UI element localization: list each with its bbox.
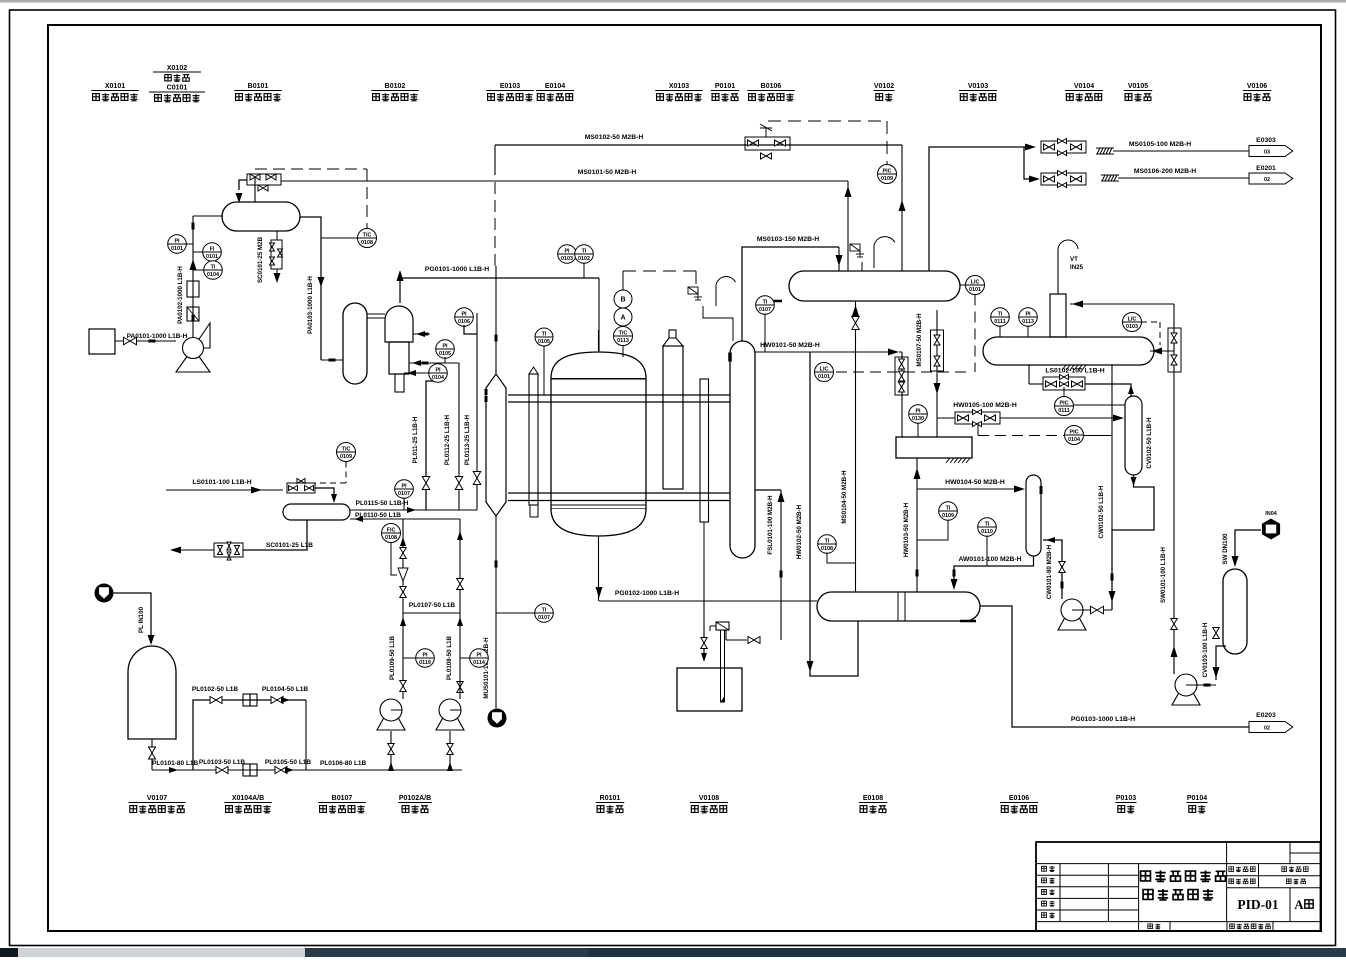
blower C0101 [193, 323, 210, 348]
instrument TI0105 [535, 328, 553, 346]
svg-text:TI: TI [542, 332, 547, 338]
svg-text:PI: PI [461, 312, 467, 318]
pipe CW0101 pump to E0106 [1043, 540, 1062, 599]
svg-text:V0103: V0103 [968, 83, 988, 90]
pipe branch to E0201 line [1024, 147, 1033, 179]
instrument TI0110 [978, 518, 997, 537]
svg-text:PA0102-1000 L1B-H: PA0102-1000 L1B-H [177, 266, 184, 324]
instrument stem TIC0108 to pipe [321, 237, 357, 239]
svg-text:P0103: P0103 [1116, 795, 1136, 802]
pipe P0104 discharge [1197, 684, 1216, 686]
svg-text:TIC: TIC [619, 331, 628, 337]
arrow up on riser [190, 259, 197, 270]
svg-text:HW0103-50 M2B-H: HW0103-50 M2B-H [903, 502, 910, 557]
pump drains [390, 731, 392, 770]
svg-text:TI: TI [998, 312, 1003, 318]
svg-text:E0203: E0203 [1256, 712, 1276, 719]
title block drawing title [1141, 871, 1151, 881]
svg-text:PL0104-50 L1B: PL0104-50 L1B [262, 686, 309, 693]
svg-text:V0102: V0102 [874, 83, 894, 90]
instrument PI0101 [168, 235, 187, 254]
dashed LIC down [974, 295, 976, 373]
relief valve near column [688, 287, 698, 294]
svg-text:B0102: B0102 [385, 83, 406, 90]
utility hexagon SW [1262, 519, 1280, 540]
utility connection MUS [488, 709, 507, 728]
chimney E0104 shoulder [663, 338, 683, 346]
filter X0104A [243, 694, 250, 706]
instrument PIC0111 [1055, 397, 1074, 416]
svg-text:PA0103-1000 L1B-H: PA0103-1000 L1B-H [307, 276, 314, 334]
svg-text:MS0107-50 M2B-H: MS0107-50 M2B-H [916, 313, 923, 367]
pipe X0101 to blower [115, 340, 176, 342]
svg-text:PI: PI [435, 368, 441, 374]
svg-text:PL IN100: PL IN100 [138, 606, 145, 633]
svg-text:TI: TI [542, 608, 547, 614]
svg-text:LIC: LIC [820, 367, 829, 373]
svg-text:SW0101-100 L1B-H: SW0101-100 L1B-H [1160, 546, 1167, 603]
svg-text:PG0102-1000 L1B-H: PG0102-1000 L1B-H [615, 590, 679, 597]
pump P0102B [436, 699, 464, 730]
salt header lower pair [508, 492, 730, 494]
svg-text:R0101: R0101 [600, 795, 621, 802]
svg-text:LS0101-100 L1B-H: LS0101-100 L1B-H [192, 479, 251, 486]
pump P0102A [377, 699, 405, 730]
svg-text:0109: 0109 [340, 454, 352, 460]
instrument TIC0109 [337, 443, 356, 462]
svg-text:TI: TI [211, 265, 216, 271]
svg-text:PL0113-25 L1B-H: PL0113-25 L1B-H [464, 414, 471, 465]
svg-text:X0101: X0101 [105, 83, 125, 90]
utility PL inlet symbol [95, 584, 114, 603]
svg-text:E0104: E0104 [545, 83, 565, 90]
pipe right pump riser [459, 519, 461, 699]
instrument LIC0101 mid [815, 363, 834, 382]
svg-text:0113: 0113 [1022, 319, 1034, 325]
svg-text:HW0104-50 M2B-H: HW0104-50 M2B-H [945, 479, 1005, 486]
svg-text:PG0103-1000 L1B-H: PG0103-1000 L1B-H [1071, 716, 1135, 723]
svg-text:A: A [620, 315, 625, 322]
svg-text:MS0106-200 M2B-H: MS0106-200 M2B-H [1134, 168, 1196, 175]
svg-text:PL0112-25 L1B-H: PL0112-25 L1B-H [444, 414, 451, 465]
valve on feedwater riser [852, 317, 860, 330]
pipe into deaerator right [1150, 350, 1174, 352]
bottom taskbar [0, 948, 1346, 957]
svg-text:TI: TI [946, 506, 951, 512]
svg-text:V0105: V0105 [1128, 83, 1148, 90]
svg-text:PL0102-50 L1B: PL0102-50 L1B [192, 686, 239, 693]
svg-text:E0108: E0108 [863, 795, 883, 802]
pipe reactor salt drain to tank [703, 560, 705, 660]
pipe PG0101 down to reactor [598, 278, 600, 353]
svg-text:E0103: E0103 [500, 83, 520, 90]
reactor stem top [598, 330, 600, 352]
reactor internal tube sheets [551, 378, 646, 380]
vessel V0102 steam drum [789, 271, 960, 301]
pipe riser PL0111 [426, 381, 438, 510]
svg-text:0110: 0110 [981, 529, 993, 535]
cooler hatch [960, 620, 976, 623]
svg-text:PI: PI [915, 409, 921, 415]
svg-text:0104: 0104 [207, 272, 219, 278]
pipe PG0102 reactor to cooler [599, 600, 817, 602]
svg-text:X0102: X0102 [167, 65, 187, 72]
vent hook top [1058, 240, 1078, 250]
vessel E0106 water preheater column [1026, 475, 1041, 556]
svg-text:MS0105-100 M2B-H: MS0105-100 M2B-H [1129, 141, 1191, 148]
dashed TIC0109 down [345, 462, 347, 484]
valve manifold SC0101 [214, 543, 243, 557]
pipe SW inlet to V0106 [1235, 530, 1261, 565]
pipe MS0107 down to distributor [936, 310, 938, 437]
cooler internal baffles [897, 592, 899, 621]
instrument PI0113 [1019, 308, 1038, 327]
tick on B0102 inlet [329, 359, 336, 362]
reactor internal verticals [529, 394, 538, 396]
pipe V0106 bottom valve [1216, 646, 1226, 680]
arrow feed into mixer mid [412, 360, 421, 366]
svg-text:E0106: E0106 [1009, 795, 1029, 802]
instrument TI0107b [535, 604, 554, 623]
arrow down on PA0103 line [318, 277, 325, 287]
pipe MS0103 from column top [742, 247, 839, 341]
svg-text:PI: PI [422, 653, 428, 659]
arrow feed into mixer low [404, 372, 430, 374]
svg-text:0107: 0107 [538, 615, 550, 621]
instrument PIC0104 [1065, 426, 1084, 445]
svg-text:PID-01: PID-01 [1237, 897, 1278, 912]
pipe blower discharge riser [192, 216, 194, 337]
title block frame [1036, 842, 1321, 931]
svg-text:B0106: B0106 [761, 83, 782, 90]
svg-text:IN04: IN04 [1265, 511, 1278, 517]
vessel B0102 mixer stub [395, 374, 404, 392]
svg-text:TI: TI [763, 300, 768, 306]
drum hatch support [770, 300, 782, 303]
svg-text:0104: 0104 [432, 375, 444, 381]
svg-text:0106: 0106 [458, 319, 470, 325]
riser components left [400, 548, 407, 559]
vessel B0102 vaporizer column [343, 303, 367, 384]
svg-text:MS0103-150 M2B-H: MS0103-150 M2B-H [757, 236, 819, 243]
vessel B0102 mixer body [389, 342, 409, 374]
vessel V0106 soft water column [1223, 569, 1247, 654]
title block grid [1036, 863, 1321, 865]
instrument stack stem [622, 271, 624, 290]
pipe FSL from column right [755, 489, 781, 491]
expansion joint E0303 line [1097, 148, 1112, 154]
svg-text:PI: PI [564, 249, 570, 255]
svg-text:A: A [1294, 897, 1304, 912]
thermowell right [700, 379, 709, 522]
svg-text:PL0107-50 L1B: PL0107-50 L1B [409, 602, 456, 609]
svg-text:LIC: LIC [1128, 317, 1137, 323]
vent stack on deaerator [1050, 294, 1066, 337]
tick on riser [192, 315, 195, 322]
svg-text:PL0108-50 L1B: PL0108-50 L1B [446, 635, 453, 680]
instrument PIC0109 [878, 165, 897, 184]
drain SC0101 from drum [243, 520, 307, 550]
pipe riser to drum B0101 [193, 215, 223, 217]
pipe PL0115 from drum right [350, 509, 477, 511]
valve manifold HW0105 [955, 412, 1000, 424]
dashed PIC0104 loop [977, 423, 979, 436]
svg-text:0103: 0103 [561, 256, 573, 262]
svg-text:MS0102-50 M2B-H: MS0102-50 M2B-H [585, 134, 644, 141]
dashed vertical at x495 [494, 182, 496, 266]
svg-text:PI: PI [174, 239, 180, 245]
valve manifold E0303 line [1041, 141, 1086, 153]
vessel R0101 reactor body [551, 378, 646, 509]
svg-text:B0101: B0101 [248, 83, 269, 90]
svg-text:IN25: IN25 [1070, 264, 1084, 271]
svg-text:TI: TI [985, 522, 990, 528]
vessel V0103 water distributor [896, 437, 972, 458]
valve manifold on MS0102 [745, 137, 790, 150]
valve column right of deaerator [1173, 304, 1175, 674]
instrument signal dashed PIC0109 [768, 120, 887, 122]
svg-text:PL011-25 L1B-H: PL011-25 L1B-H [412, 416, 419, 463]
pipe hexagon bottom down [495, 516, 497, 708]
pipe PL0110 return line [350, 518, 460, 520]
pipe B0101 bypass up [254, 177, 256, 202]
svg-text:PL0105-50 L1B: PL0105-50 L1B [265, 759, 312, 766]
pipe x495 to hexagon filter [495, 266, 497, 374]
instrument PI0130 [909, 405, 928, 424]
svg-text:PA0101-1000 L1B-H: PA0101-1000 L1B-H [127, 333, 188, 340]
tick on riser top [192, 223, 195, 230]
pipe MS0102 header [495, 144, 902, 146]
thermowell left [529, 367, 538, 374]
valve on FSL to salt tank rig [748, 637, 760, 644]
instrument signal dashed to TIC0108 [255, 168, 367, 170]
svg-text:0113: 0113 [617, 338, 629, 344]
chimney E0104 neck [669, 330, 676, 338]
svg-text:0107: 0107 [398, 491, 410, 497]
tick on E0106 [1040, 486, 1043, 494]
valve PL0104 [271, 697, 283, 704]
svg-text:PI: PI [442, 344, 448, 350]
instrument TI0111 [991, 308, 1010, 327]
svg-text:0109: 0109 [942, 513, 954, 519]
instrument PI0103 [558, 245, 577, 264]
pipe into vaporizer B0102 [321, 359, 343, 361]
svg-text:X0103: X0103 [669, 83, 689, 90]
stem TI0109 [917, 520, 948, 541]
svg-text:0111: 0111 [1058, 408, 1069, 414]
small drum above (LS0101 separator) [283, 504, 350, 520]
instrument PI0105 [436, 340, 455, 359]
svg-text:PL0103-50 L1B: PL0103-50 L1B [199, 759, 246, 766]
title block signature labels [1042, 866, 1047, 871]
svg-text:03: 03 [1264, 150, 1270, 156]
instrument LIC0101 right [966, 276, 985, 295]
control valve top of manifold [765, 128, 767, 137]
instrument PI0119 [416, 649, 435, 668]
svg-text:PL0106-80 L1B: PL0106-80 L1B [320, 760, 367, 767]
pipe MS0102 drop to drum [901, 145, 903, 271]
pipe cooler to PG0103 [980, 606, 1249, 727]
svg-text:TIC: TIC [363, 233, 372, 239]
agitator shaft [721, 630, 725, 702]
connector between vaporizer vessels [367, 313, 385, 315]
svg-text:CW0101-80 M2B-H: CW0101-80 M2B-H [1046, 544, 1053, 599]
filter X0104B [243, 764, 250, 776]
pipe into drum top [315, 488, 334, 496]
svg-text:0130: 0130 [912, 416, 924, 422]
window top edge strip [0, 0, 1346, 3]
svg-text:CV0103-100 L1B-H: CV0103-100 L1B-H [1202, 622, 1209, 677]
valve on air line [124, 337, 137, 345]
inline filter box on riser [187, 281, 199, 297]
valve PL0103 [216, 767, 228, 774]
vessel V0107 xylene tank [128, 646, 176, 739]
svg-text:V0106: V0106 [1247, 83, 1267, 90]
svg-text:0107: 0107 [759, 307, 771, 313]
instrument TI0107 [756, 296, 775, 315]
pipe AW0102 into cooler right [953, 563, 955, 566]
svg-text:CW0102-50 L1B-H: CW0102-50 L1B-H [1098, 485, 1105, 538]
reactor top dome [551, 352, 646, 378]
pipe B0101 outlet right [300, 217, 321, 360]
pipe left pump riser [402, 519, 404, 699]
instrument TIC0108 [358, 229, 377, 248]
svg-text:0108: 0108 [385, 535, 397, 541]
instrument FI0101 [203, 243, 222, 262]
svg-text:0119: 0119 [419, 660, 431, 666]
stem to PG0101 [583, 263, 585, 279]
svg-text:AW0101-100 M2B-H: AW0101-100 M2B-H [958, 556, 1021, 563]
instrument stack A [614, 308, 632, 326]
svg-text:HW0105-100 M2B-H: HW0105-100 M2B-H [953, 402, 1017, 409]
svg-text:P0101: P0101 [715, 83, 735, 90]
svg-text:SW DN100: SW DN100 [1222, 533, 1229, 565]
relief valve on drum top [850, 244, 860, 251]
svg-text:MS0101-50 M2B-H: MS0101-50 M2B-H [578, 169, 637, 176]
hatch under distributor [946, 458, 950, 463]
svg-text:LS0102-100 L1B-H: LS0102-100 L1B-H [1045, 368, 1104, 375]
svg-text:FI: FI [210, 247, 215, 253]
svg-text:VT: VT [1070, 256, 1078, 263]
thermowell left lower box [530, 505, 538, 517]
instrument PI0114 [470, 649, 489, 668]
svg-text:X0104A/B: X0104A/B [232, 795, 264, 802]
vessel B0106 salt exchanger column [730, 341, 755, 558]
valve manifold LS0102 [1043, 377, 1085, 390]
pump P0103 [1058, 599, 1086, 630]
svg-text:LIC: LIC [971, 280, 980, 286]
svg-text:V0107: V0107 [147, 795, 167, 802]
svg-text:0102: 0102 [578, 256, 590, 262]
pipe PL inlet to tank [114, 593, 152, 640]
svg-text:0101: 0101 [969, 287, 981, 293]
ticks on hexagon [485, 389, 488, 395]
pipe P0103 discharge [1083, 609, 1112, 611]
svg-text:P0104: P0104 [1187, 795, 1207, 802]
svg-text:0105: 0105 [538, 339, 550, 345]
pipe main steam header to exits [929, 147, 1028, 271]
valve under tank [151, 739, 153, 770]
svg-text:02: 02 [1264, 726, 1270, 732]
pipe MS0101 from manifold right [281, 180, 848, 182]
filter loop top line [193, 700, 306, 770]
pipe HW0101 column to drum area [755, 351, 893, 353]
instrument PI0106 [455, 308, 474, 327]
svg-text:B: B [620, 297, 625, 304]
pipe PI0106 riser PL0113 [464, 325, 477, 334]
instrument LIC0103 [1123, 313, 1142, 332]
valves on PL risers [422, 477, 430, 490]
pipe PG0101 from mixer top [400, 278, 599, 303]
valve PL0102 [210, 697, 222, 704]
svg-text:PIC: PIC [883, 169, 892, 175]
valve manifold E0201 line [1041, 173, 1086, 185]
instrument TI0109 [939, 502, 958, 521]
svg-text:0108: 0108 [821, 546, 833, 552]
pipe LS manifold to V0105 top [1085, 384, 1131, 396]
svg-text:MUS0101-100 M2B-H: MUS0101-100 M2B-H [483, 637, 490, 699]
svg-text:PL0115-50 L1B-H: PL0115-50 L1B-H [356, 500, 409, 507]
title block scale row [1148, 924, 1153, 929]
svg-text:PIC: PIC [1060, 401, 1069, 407]
svg-text:SC0101-25 M2B: SC0101-25 M2B [257, 236, 264, 283]
svg-text:V0108: V0108 [699, 795, 719, 802]
svg-text:0101: 0101 [206, 254, 218, 260]
svg-text:TI: TI [825, 539, 830, 545]
svg-text:0108: 0108 [361, 240, 373, 246]
pipe to E0201 flag [1118, 177, 1249, 179]
dashed LIC0103 [1141, 321, 1160, 323]
svg-text:0109: 0109 [881, 176, 893, 182]
instrument TI0108 [818, 535, 837, 554]
inline orifice box on riser [187, 307, 199, 321]
pipe PL0101 bottom line [152, 769, 462, 771]
valves above pumps [400, 681, 407, 692]
pump P0104 [1172, 674, 1200, 705]
pipe HW0102 loop under cooler [810, 352, 858, 676]
svg-text:PI: PI [1025, 312, 1031, 318]
svg-text:P0102A/B: P0102A/B [399, 795, 431, 802]
pipe SC0101 out left [180, 549, 214, 551]
valve column HW0101 to distributor [901, 352, 903, 437]
pipe V0105 bottom loop [1112, 475, 1154, 610]
reactor stem bottom [598, 536, 600, 601]
vessel V0104 deaerator [983, 337, 1154, 365]
pipe AW0101 E0106 bottom to cooler [954, 556, 1034, 586]
svg-text:MS0104-50 M2B-H: MS0104-50 M2B-H [841, 470, 848, 524]
instrument TI0104 [204, 261, 223, 280]
vessel B0101 air preheater drum [222, 202, 300, 231]
svg-text:PI: PI [476, 653, 482, 659]
pipe riser PL0112 [409, 362, 459, 364]
instrument FIC0108 [382, 524, 401, 543]
chimney E0104 body [663, 346, 683, 489]
salt header upper pair [508, 394, 730, 396]
svg-text:PL0109-50 L1B: PL0109-50 L1B [389, 635, 396, 680]
tick feed mid [422, 333, 429, 336]
pipe deaerator bottom to LS manifold [1028, 365, 1030, 384]
stem TI0108 [827, 553, 856, 564]
instrument stack B [614, 290, 632, 308]
arrow feed into mixer top [413, 333, 430, 335]
svg-text:0101: 0101 [818, 374, 830, 380]
svg-text:HW0101-50 M2B-H: HW0101-50 M2B-H [760, 342, 820, 349]
instrument PI0104 [429, 364, 448, 383]
pipe HW0105 to V0105 [937, 417, 955, 419]
vent pipe [1057, 250, 1059, 294]
svg-text:FSL0101-100 M2B-H: FSL0101-100 M2B-H [767, 495, 774, 555]
svg-text:02: 02 [1264, 177, 1270, 183]
